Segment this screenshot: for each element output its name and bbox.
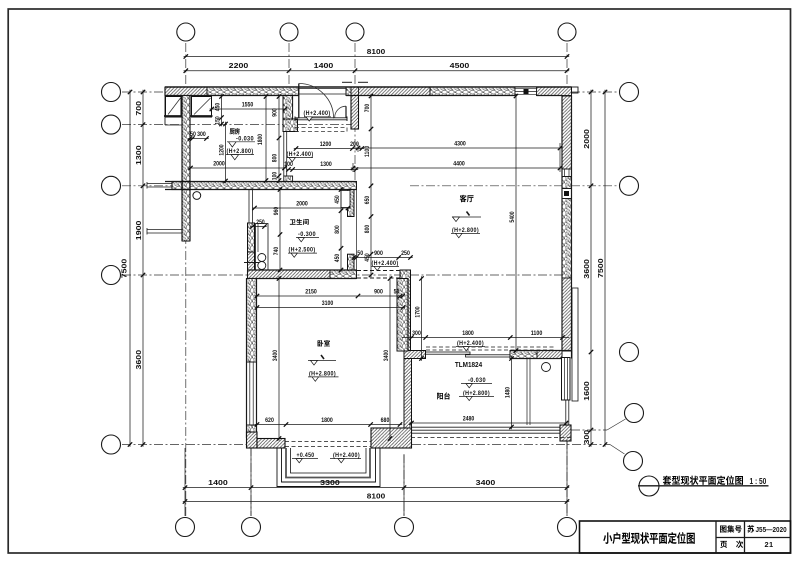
svg-text:3400: 3400 <box>272 350 279 362</box>
axis bubble bottom-2 <box>242 518 261 537</box>
svg-text:7500: 7500 <box>596 258 605 278</box>
svg-text:(H+2.500): (H+2.500) <box>289 247 316 254</box>
wall exterior north band <box>165 87 207 96</box>
axis line 2-top vertical <box>288 43 290 96</box>
wall bathroom-east lower <box>348 254 355 270</box>
svg-text:4300: 4300 <box>454 141 466 148</box>
svg-text:7500: 7500 <box>120 259 129 279</box>
svg-text:3100: 3100 <box>322 300 334 307</box>
svg-text:2150: 2150 <box>305 289 317 296</box>
svg-text:(H+2.800): (H+2.800) <box>452 227 479 234</box>
svg-text:2000: 2000 <box>296 201 308 208</box>
dim kitchen 2000 <box>188 167 286 169</box>
svg-text:1300: 1300 <box>134 145 143 165</box>
svg-text:4500: 4500 <box>450 61 470 70</box>
svg-text:800: 800 <box>271 153 278 162</box>
dim bedroom 3400 right vertical <box>389 276 391 440</box>
floor drain balcony <box>542 363 551 372</box>
axis bubble bottom-3 <box>395 518 414 537</box>
room label living <box>460 195 474 202</box>
dim kitchen 1800 vertical <box>265 94 267 182</box>
flue shaft F2 <box>192 97 212 118</box>
svg-text:1200: 1200 <box>218 144 225 156</box>
room label bathroom <box>290 219 309 225</box>
svg-text:-0.030: -0.030 <box>468 377 486 384</box>
wall kitchen-south band <box>190 182 357 190</box>
window W5 bedroom-west <box>249 362 251 425</box>
dimension left total 7500 <box>129 90 131 447</box>
dim balcony 2480 <box>409 422 568 424</box>
title block page label <box>720 540 743 547</box>
axis bubble bottom-4 <box>558 518 577 537</box>
bay window dashed lintel <box>285 441 371 443</box>
axis bubble top-3 <box>346 23 364 41</box>
svg-text:-0.300: -0.300 <box>298 231 316 238</box>
svg-text:1100: 1100 <box>364 146 371 158</box>
shaft niche bathroom <box>341 191 350 208</box>
dim living 4400 <box>351 167 562 169</box>
svg-text:740: 740 <box>273 246 280 255</box>
dim kitchen 900 800 100 vertical <box>278 94 280 182</box>
room label kitchen <box>230 128 240 134</box>
svg-text:1300: 1300 <box>320 161 332 168</box>
dimension left segments 700 1300 1900 3600 <box>142 90 144 447</box>
dim living 5400 vertical <box>515 94 517 353</box>
dim entry 100 1300 <box>286 169 358 171</box>
flue shaft F1 <box>166 97 182 118</box>
axis bubble right-A <box>620 83 639 102</box>
sliding door TLM1824 <box>426 352 471 354</box>
svg-text:+0.450: +0.450 <box>297 452 315 459</box>
svg-text:100: 100 <box>271 171 278 180</box>
balcony east window <box>562 358 571 401</box>
dim bathroom 960 740 vertical <box>279 187 281 272</box>
svg-text:4400: 4400 <box>453 161 465 168</box>
svg-text:800: 800 <box>334 225 341 234</box>
axis leader to circle y430 <box>571 429 607 431</box>
extension lines bottom <box>184 448 186 516</box>
bathroom washer circles <box>258 254 266 262</box>
door D1 entry leaf <box>298 84 300 119</box>
axis line 2-bottom vertical <box>250 447 252 516</box>
wall bedroom-east <box>397 279 408 352</box>
svg-text:450: 450 <box>334 195 341 204</box>
svg-text:700: 700 <box>134 101 143 116</box>
svg-text:960: 960 <box>273 206 280 215</box>
axis bubble top-2 <box>280 23 298 41</box>
balcony dashed eave line <box>411 437 571 439</box>
dimension top segments 2200 1400 4500 <box>184 70 570 72</box>
svg-text:1900: 1900 <box>134 221 143 241</box>
wall bathroom-west <box>248 223 255 252</box>
svg-text:1800: 1800 <box>462 330 474 337</box>
svg-text:21: 21 <box>764 540 773 549</box>
dim hall 700 1100 650 800 450 vertical <box>370 94 372 277</box>
svg-text:8100: 8100 <box>367 47 385 56</box>
neighbour window lines lower <box>147 229 182 231</box>
dim bathroom 250 <box>250 226 266 228</box>
dim kitchen 1550 <box>210 108 288 110</box>
axis line C horizontal <box>122 185 248 187</box>
party wall arm west <box>172 182 182 190</box>
axis bubble left-A <box>102 83 121 102</box>
level mark living zero <box>452 216 481 218</box>
column mark living-north <box>524 89 529 94</box>
dim bathroom 450 800 450 vertical <box>340 187 342 272</box>
svg-text:1700: 1700 <box>414 306 421 318</box>
svg-text:450: 450 <box>214 102 221 111</box>
wall step lines east <box>572 288 578 401</box>
svg-text:8100: 8100 <box>367 492 385 501</box>
svg-text:150: 150 <box>214 116 221 125</box>
window W3 living-east small <box>564 169 566 177</box>
window W2 living-north <box>515 88 537 96</box>
svg-text:3600: 3600 <box>582 259 591 279</box>
wall bedroom-SE block <box>371 428 412 448</box>
pipe tick bathroom west <box>244 262 259 264</box>
dim balcony 1480 vertical <box>511 356 513 429</box>
svg-text:650: 650 <box>364 195 371 204</box>
wall kitchen-east <box>283 96 293 120</box>
dim kitchen 450 150 vertical <box>221 94 223 126</box>
svg-text:(H+2.400): (H+2.400) <box>333 452 360 459</box>
svg-text:1 : 50: 1 : 50 <box>750 477 767 486</box>
axis line D horizontal <box>122 274 400 276</box>
neighbour window lines upper <box>147 183 172 185</box>
svg-text:1100: 1100 <box>531 330 543 337</box>
wall bathroom-east upper <box>348 190 355 217</box>
axis bubble left-B <box>102 115 121 134</box>
dimension right total 7500 <box>604 90 606 447</box>
balcony south railing <box>412 426 561 428</box>
svg-text:2200: 2200 <box>229 61 249 70</box>
svg-text:(H+2.400): (H+2.400) <box>372 260 399 267</box>
partition kitchen-east thin <box>283 132 285 177</box>
wall west exterior upper <box>182 96 190 242</box>
wall bathroom-west thin partition <box>248 190 250 224</box>
axis bubble right-4 <box>625 404 644 423</box>
axis line 1 vertical <box>185 43 187 516</box>
dim bathroom 2000 <box>252 207 350 209</box>
dimension top total 8100 <box>184 56 570 58</box>
svg-text:800: 800 <box>364 224 371 233</box>
dim kitchen 1200 vertical <box>225 122 227 183</box>
svg-text:900: 900 <box>374 250 383 257</box>
dim hall 50 900 250 <box>352 257 413 259</box>
wall entry-living stub <box>351 96 359 130</box>
svg-text:250: 250 <box>401 250 410 257</box>
svg-text:300: 300 <box>197 131 206 138</box>
svg-text:50: 50 <box>190 131 196 138</box>
dimension bottom total 8100 <box>183 501 569 503</box>
dim entry 1200 200 <box>294 148 364 150</box>
door D1 small leaf <box>345 106 347 117</box>
dimension right segments 2000 3600 1600 300 <box>590 90 592 447</box>
svg-text:2000: 2000 <box>213 161 225 168</box>
svg-text:700: 700 <box>364 103 371 112</box>
bathroom fixture cabinet <box>256 224 269 271</box>
wall bedroom-south left <box>257 439 285 449</box>
axis line 3-top vertical <box>354 43 356 181</box>
dimension bottom segments 1400 3300 3400 <box>183 487 569 489</box>
bay window nested sills <box>277 448 380 487</box>
svg-text:300: 300 <box>582 430 591 445</box>
svg-text:(H+2.400): (H+2.400) <box>304 110 331 117</box>
axis bubble right-5 <box>624 452 643 471</box>
svg-text:300: 300 <box>412 330 421 337</box>
title block frame <box>580 521 791 553</box>
wall notch top-right corner <box>572 87 579 93</box>
axis bubble left-E <box>102 435 121 454</box>
dim bedroom top 2150 900 50 <box>255 295 405 297</box>
svg-text:(H+2.800): (H+2.800) <box>227 148 254 155</box>
axis line A horizontal <box>122 91 166 93</box>
dim kitchen 50 300 <box>188 138 209 140</box>
title block drawing name <box>603 532 695 544</box>
svg-text:450: 450 <box>334 253 341 262</box>
facade line west <box>164 96 166 126</box>
dim balcony top 300 1800 1100 <box>402 337 569 339</box>
axis line E horizontal <box>122 444 246 446</box>
svg-text:2480: 2480 <box>463 416 475 423</box>
entry lintel ticks <box>342 81 352 83</box>
svg-text:3300: 3300 <box>320 478 340 487</box>
svg-text:50: 50 <box>394 289 400 296</box>
wall balcony-west <box>404 359 412 429</box>
svg-text:3600: 3600 <box>134 350 143 370</box>
axis leader to circle y444 <box>610 445 625 455</box>
wall living-south band <box>404 351 426 359</box>
axis line 3-bottom vertical <box>403 454 405 516</box>
wall face line x356 <box>356 190 358 271</box>
dim bedroom 3400 left vertical <box>278 276 280 440</box>
svg-text:5400: 5400 <box>509 211 516 222</box>
gas riser kitchen <box>193 192 201 200</box>
svg-text:250: 250 <box>256 219 265 226</box>
wall bedroom-west <box>247 279 257 363</box>
svg-text:TLM1824: TLM1824 <box>455 362 482 369</box>
entry closet dashed <box>295 128 347 132</box>
svg-text:1550: 1550 <box>242 102 254 109</box>
dim balcony 1700 vertical <box>421 276 423 360</box>
hallway opening dashed <box>357 270 400 272</box>
room label bedroom <box>318 340 330 347</box>
door D1 entry swing arc <box>299 84 334 119</box>
svg-text:900: 900 <box>374 289 383 296</box>
wall living-west <box>400 270 411 351</box>
axis line 4 vertical <box>566 43 568 96</box>
svg-text:(H+2.800): (H+2.800) <box>309 370 336 377</box>
axis bubble top-4 <box>558 23 576 41</box>
wall living-east <box>562 96 572 169</box>
svg-text:1200: 1200 <box>320 141 332 148</box>
svg-text:1400: 1400 <box>208 478 228 487</box>
caption underline <box>638 485 769 487</box>
dim bedroom top 3100 <box>255 307 405 309</box>
axis bubble bottom-1 <box>176 518 195 537</box>
svg-text:J55—2020: J55—2020 <box>756 525 787 534</box>
svg-text:1480: 1480 <box>504 387 511 399</box>
svg-text:3400: 3400 <box>383 350 390 362</box>
axis bubble top-1 <box>177 23 195 41</box>
caption text <box>663 476 743 485</box>
wall balcony-SE block <box>560 425 571 441</box>
dim bedroom 620 1800 680 <box>255 424 402 426</box>
wall bathroom-south band <box>248 270 331 279</box>
svg-text:2000: 2000 <box>582 129 591 149</box>
axis bubble right-3 <box>620 343 639 362</box>
wall bedroom-SW corner <box>247 432 258 448</box>
svg-text:(H+2.400): (H+2.400) <box>457 340 484 347</box>
svg-text:1400: 1400 <box>314 61 334 70</box>
axis bubble left-C <box>102 176 121 195</box>
title block atlas-no label <box>720 525 742 532</box>
svg-text:100: 100 <box>284 161 293 168</box>
axis bubble right-C <box>620 176 639 195</box>
svg-text:(H+2.400): (H+2.400) <box>287 151 314 158</box>
svg-text:(H+2.800): (H+2.800) <box>463 390 490 397</box>
svg-text:900: 900 <box>271 108 278 117</box>
svg-text:1800: 1800 <box>321 417 333 424</box>
caption bubble <box>639 476 659 496</box>
axis line B horizontal <box>122 124 356 126</box>
title block atlas number <box>747 525 754 532</box>
entry threshold lines <box>295 117 347 119</box>
svg-text:1600: 1600 <box>582 381 591 401</box>
balcony east railing <box>565 400 567 425</box>
svg-text:3400: 3400 <box>476 478 496 487</box>
dim living 4300 <box>356 147 562 149</box>
svg-text:680: 680 <box>381 417 390 424</box>
axis bubble left-D <box>102 266 121 285</box>
wall junction block west <box>182 182 190 190</box>
room label balcony <box>437 392 450 399</box>
window W1 entry-north opening lines <box>299 88 347 90</box>
svg-text:620: 620 <box>265 417 274 424</box>
bulkhead dashed above balcony door <box>426 346 556 348</box>
svg-text:1800: 1800 <box>257 134 264 146</box>
svg-text:50: 50 <box>357 250 363 257</box>
level mark bedroom zero <box>308 360 336 362</box>
downpipe lines balcony <box>526 359 528 425</box>
window W4 living-east with column <box>562 188 572 190</box>
